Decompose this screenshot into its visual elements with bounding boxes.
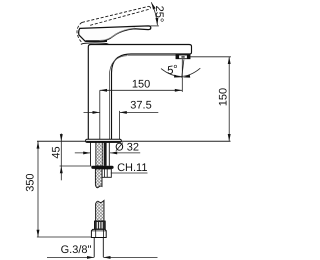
5 deg angle: plumb line and tilted line xyxy=(181,59,183,92)
deck / counter line xyxy=(37,140,231,142)
dimension diameter 32 xyxy=(75,152,140,154)
dimension 150 horizontal (spout reach) xyxy=(100,89,182,91)
dimension G.3/8 thread xyxy=(47,256,158,258)
G3/8 threaded pipe end xyxy=(94,238,103,258)
hose crimp collar xyxy=(94,221,105,229)
braided hose lower piece with break xyxy=(96,201,104,222)
svg-text:350: 350 xyxy=(25,173,37,191)
svg-text:150: 150 xyxy=(132,79,150,91)
aerator under spout tip xyxy=(176,55,190,59)
svg-text:150: 150 xyxy=(218,88,230,106)
spout inner fillet highlight line xyxy=(109,56,127,140)
dashed raised handle (25 deg open position) xyxy=(77,6,151,42)
extension line from handle end xyxy=(150,25,159,27)
faucet body and spout outline xyxy=(88,45,191,140)
cartridge cap under handle xyxy=(81,43,109,45)
25 deg angle arc xyxy=(151,2,157,25)
spout underside shadow line xyxy=(128,54,176,56)
svg-text:G.3/8": G.3/8" xyxy=(61,244,92,256)
svg-text:45: 45 xyxy=(50,146,62,158)
dimension 45 (deck to flange) xyxy=(60,134,62,181)
braided hose upper piece with break xyxy=(95,169,102,188)
handle inner highlight curve xyxy=(100,28,136,40)
handle lever (rest position) xyxy=(79,26,151,41)
svg-text:Ø 32: Ø 32 xyxy=(115,142,139,154)
hex nut CH.11 xyxy=(102,169,111,177)
svg-text:25°: 25° xyxy=(153,6,165,23)
handle thick bottom edge xyxy=(86,40,108,42)
5 deg arc xyxy=(161,68,200,76)
svg-text:CH.11: CH.11 xyxy=(117,162,147,174)
svg-text:5°: 5° xyxy=(166,64,179,78)
dimension 37.5 xyxy=(84,111,159,113)
dimension 150 vertical right (spout height) xyxy=(228,57,230,141)
svg-text:37.5: 37.5 xyxy=(130,100,151,112)
dimension 350 (deck to hose end) xyxy=(37,141,39,237)
locking flange nut xyxy=(91,166,113,169)
base plate (escutcheon) xyxy=(86,139,122,142)
threaded shank assembly under deck xyxy=(91,142,110,166)
hex nut G3/8 xyxy=(91,229,106,237)
